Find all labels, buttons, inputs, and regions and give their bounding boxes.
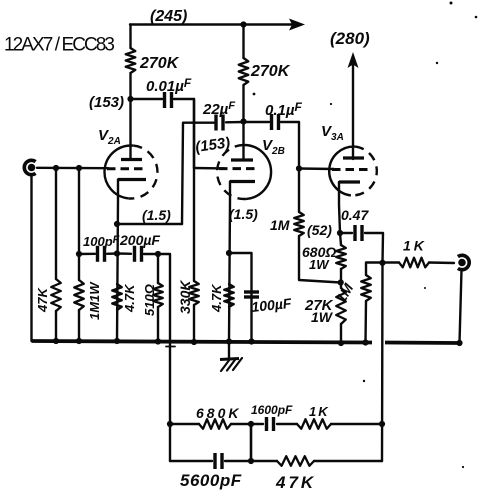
capacitor 22uF (216, 115, 223, 131)
input jack connector (24, 160, 35, 174)
node V2A cathode / fb wire (114, 221, 120, 227)
wire 47K top (55, 168, 57, 279)
wire 1M bottom to bias junction (299, 236, 341, 283)
wire 22uF right to V2B plate node (226, 121, 244, 124)
wire 270K top (129, 25, 131, 49)
svg-text:(245): (245) (150, 8, 187, 25)
svg-text:(153): (153) (89, 94, 124, 111)
wire NFB top 680K seg (170, 423, 199, 425)
node gnd V2B cathode (226, 338, 232, 344)
label 22uF (202, 100, 235, 118)
wire V2A cathode lead (117, 180, 118, 342)
wire NFB right vertical (381, 263, 384, 461)
label 680 ohm (302, 244, 336, 260)
wire 510 top to fb line corner (158, 254, 170, 461)
node NFB mid top (248, 421, 254, 427)
wire cathode to 680 (340, 233, 341, 245)
svg-text:47K: 47K (275, 473, 316, 492)
label 0.47 (341, 207, 369, 223)
wire output jack shell to ground (460, 270, 462, 343)
node gnd 1M load (362, 339, 368, 345)
svg-text:1K: 1K (309, 404, 330, 419)
wire 1M1W mid (78, 254, 80, 280)
resistor 1M 1W (74, 280, 84, 310)
svg-text:200µF: 200µF (119, 232, 160, 248)
wire 47K fb to right vertical (314, 460, 382, 462)
V2A cathode bar (118, 178, 146, 181)
V2A grid (dashed) (107, 167, 147, 170)
wire 100uF branch top (229, 253, 252, 342)
wire 5600pF to mid (225, 460, 251, 462)
capacitor 100pF (98, 246, 105, 262)
tube V2B envelope (217, 145, 271, 199)
node V2B cathode / 100uF tap (226, 250, 232, 256)
svg-text:(1.5): (1.5) (229, 206, 258, 222)
label node (1.5) V2A cathode (142, 207, 171, 223)
label 5600pF (180, 471, 242, 490)
svg-text:(52): (52) (307, 222, 332, 238)
resistor 680 ohm 1W (336, 245, 346, 269)
svg-text:510Ω: 510Ω (142, 284, 157, 316)
svg-text:(280): (280) (330, 29, 370, 48)
wire 270K2 top (242, 25, 244, 59)
resistor 270K (V2A plate load) (126, 48, 136, 73)
svg-text:47K: 47K (35, 287, 50, 313)
label 47K feedback (275, 473, 316, 492)
svg-text:680K: 680K (196, 405, 241, 421)
wire 0.47 to output node (365, 233, 383, 263)
label 1M1W (rotated) (87, 281, 102, 320)
V2B cathode bar (230, 180, 255, 183)
svg-text:1600pF: 1600pF (251, 403, 293, 417)
capacitor 0.1uF (272, 114, 279, 130)
tube V2A envelope (105, 146, 158, 199)
node 510 top (155, 251, 161, 257)
wire V3A plate to B+ 280 (352, 64, 354, 159)
label 0.1uF (265, 100, 303, 119)
svg-text:1W: 1W (309, 257, 330, 272)
svg-text:1M1W: 1M1W (87, 281, 102, 320)
label 1K feedback (309, 404, 330, 419)
tube V3A envelope (329, 147, 377, 196)
node NFB left top wire (167, 421, 173, 427)
label node (245) (150, 8, 187, 25)
label 270K (V2A plate load) (139, 55, 180, 72)
wire V2B plate lead (242, 122, 244, 161)
arrow B+ rail output (289, 19, 305, 31)
node V3A cathode junction (337, 230, 343, 236)
label 100pF (83, 234, 120, 249)
wire 1M tap to 100pF (79, 253, 95, 256)
wire V2A plate lead (129, 99, 131, 160)
wire V2A cathode to 22uF line (117, 223, 182, 225)
wire mid to 47K fb (251, 460, 277, 462)
wire 510 mid (157, 254, 159, 283)
V2B plate bar (231, 158, 253, 161)
node V2A plate junction (127, 96, 133, 102)
label tube V3A (321, 123, 344, 143)
wire 270K bottom to node 153 (129, 73, 131, 99)
wire mid node to 1600pF (251, 423, 263, 425)
wire input jack shell to ground (30, 175, 32, 341)
label node (280) (330, 29, 370, 48)
label node (1.5) V2B cathode (229, 206, 258, 222)
V2A plate bar (121, 158, 142, 161)
resistor 1K output series (399, 258, 429, 268)
output jack connector (458, 255, 469, 269)
wire output node to 1K (383, 261, 400, 263)
resistor 680K feedback (199, 419, 231, 429)
wire 100pF to cathode line (107, 252, 117, 255)
wire 1600pF to 1K (277, 423, 297, 425)
capacitor 200uF (135, 246, 142, 262)
node gnd 330K (191, 339, 197, 345)
label 1M output load (rotated) (333, 280, 357, 305)
node B+ rail junction (240, 21, 246, 27)
svg-text:0.47: 0.47 (341, 207, 369, 223)
resistor 330K V2B grid leak (189, 281, 199, 305)
svg-text:330K: 330K (177, 280, 193, 314)
wire 680K to mid node (231, 423, 251, 425)
label 27K (304, 297, 334, 314)
wire node153 to C 0.01uF (131, 98, 163, 100)
node V2A cathode / cap wire (114, 250, 120, 256)
capacitor 0.01uF (165, 92, 172, 108)
label 1M V3A grid leak (270, 217, 290, 233)
label tube V2A (98, 127, 121, 147)
node input junction 1 (53, 165, 59, 171)
V3A grid (dashed) (332, 168, 371, 171)
svg-text:5600pF: 5600pF (180, 471, 242, 490)
label 4.7K V2B cathode (rotated) (209, 283, 224, 313)
label 47K input (rotated) (35, 287, 50, 313)
wire input to V2A grid (37, 167, 108, 170)
wire V2B grid lead (194, 167, 224, 170)
node gnd 27K (338, 340, 344, 346)
label 27K wattage (311, 309, 334, 325)
wire B+ rail 245V (130, 23, 293, 25)
wire 1K fb to right vertical (331, 423, 382, 425)
wire 22uF left to corner (182, 123, 214, 224)
svg-text:4.7K: 4.7K (209, 283, 224, 313)
svg-text:(1.5): (1.5) (142, 207, 171, 223)
capacitor 0.47uF (355, 225, 362, 241)
wire C 0.01uF to V2B grid line (174, 99, 194, 168)
wire ground bus left section (32, 341, 373, 343)
wire V2B cathode lead (229, 182, 230, 342)
svg-text:1M: 1M (270, 217, 290, 233)
node gnd 510 (155, 338, 161, 344)
label node (52) (307, 222, 332, 238)
wire NFB mid vertical (250, 424, 253, 461)
resistor 27K 1W (336, 288, 346, 324)
label 1600pF (251, 403, 293, 417)
wire 1K to output jack (429, 261, 454, 264)
node gnd 100uF (248, 338, 254, 344)
wire 680 to junction (340, 269, 342, 288)
resistor 270K (V2B plate load) (239, 58, 249, 85)
label 100uF (251, 295, 293, 315)
wire 200uF to 510 top (144, 253, 158, 255)
wire NFB bottom left seg (170, 460, 212, 462)
wire 47K bottom (55, 311, 57, 341)
node gnd output jack (456, 340, 462, 346)
wire cathode line to 200uF (117, 252, 131, 255)
label 4.7K V2A cathode (rotated) (122, 283, 137, 313)
wire V2B grid line vertical (193, 99, 195, 281)
node 1M/100pF tap (76, 251, 82, 257)
node NFB mid bottom (248, 458, 254, 464)
wire V3A grid lead (299, 167, 334, 170)
resistor 1K feedback (297, 419, 331, 429)
resistor 4.7K V2A cathode (112, 284, 122, 310)
label 680 ohm wattage (309, 257, 330, 272)
node NFB right top wire (379, 421, 385, 427)
wire 0.1uF to V3A grid line (281, 122, 299, 212)
wire cathode to 0.47 (340, 232, 352, 234)
tick fb line below bus (166, 346, 175, 348)
label 680K (196, 405, 241, 421)
wire 1M load bottom (364, 301, 367, 343)
resistor 510 ohm (153, 283, 163, 307)
ground symbol (chassis) (220, 342, 242, 372)
label tube V2B (262, 137, 285, 157)
V3A plate bar (343, 156, 364, 159)
V3A cathode bar (339, 180, 360, 183)
label 200uF (119, 232, 160, 248)
V2B grid (dashed) (219, 167, 258, 170)
wire 510 bottom (157, 307, 159, 342)
resistor 1M output load (361, 275, 371, 301)
label node (153) V2B plate (194, 134, 231, 156)
svg-text:4.7K: 4.7K (122, 283, 137, 313)
wire 270K2 bottom (242, 85, 244, 122)
capacitor 100uF electrolytic (244, 292, 259, 297)
label 330K (rotated) (177, 280, 193, 314)
label 0.01uF (146, 76, 192, 95)
node 680/27K junction (338, 279, 344, 285)
resistor 1M V3A grid leak (294, 212, 304, 236)
node V3A grid junction (296, 165, 302, 171)
label 270K (V2B plate load) (250, 63, 291, 80)
title text 12AX7 / ECC83 (4, 35, 115, 56)
wire output node to 1M top (366, 263, 383, 276)
node V2B plate junction (240, 118, 246, 124)
wire 1M1W top (78, 168, 80, 254)
label node (153) V2A plate (89, 94, 124, 111)
svg-text:1W: 1W (311, 309, 334, 325)
svg-text:270K: 270K (139, 55, 180, 72)
arrow 280 supply (348, 52, 359, 68)
wire 330K bottom (193, 305, 195, 342)
label 1K output (403, 238, 427, 254)
speckle marks (253, 2, 478, 469)
resistor 4.7K V2B cathode (224, 284, 234, 307)
svg-text:12AX7 / ECC83: 12AX7 / ECC83 (4, 35, 115, 56)
capacitor 5600pF (215, 453, 222, 469)
wire V3A cathode lead (339, 182, 340, 233)
wire 27K bottom (340, 324, 342, 343)
wire 1M1W bottom (78, 310, 80, 341)
wire V2B plate node to 0.1uF (244, 121, 270, 123)
svg-text:1K: 1K (403, 238, 427, 254)
capacitor 1600pF (267, 417, 274, 431)
resistor 47K input shunt (51, 279, 61, 311)
node gnd 1M1W (76, 338, 82, 344)
resistor 47K feedback (277, 456, 314, 466)
svg-text:270K: 270K (250, 63, 291, 80)
wire ground bus right section (385, 341, 460, 345)
node output junction (1K/1M/0.47) (379, 260, 385, 266)
node gnd 4.7K a (114, 338, 120, 344)
node input junction 2 (76, 165, 82, 171)
label 510 ohm (rotated) (142, 284, 157, 316)
node gnd 47K (53, 338, 59, 344)
